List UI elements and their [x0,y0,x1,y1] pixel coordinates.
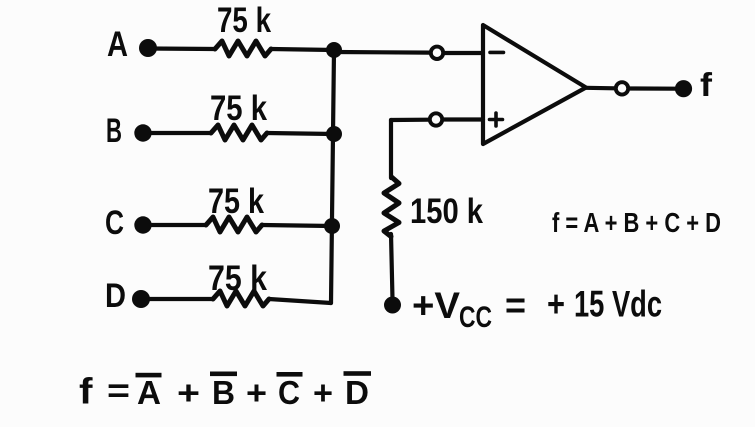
wire resistor C to bus [262,225,332,226]
wire 150k to Vcc dot [391,234,393,299]
value label 75 k (B) [210,89,267,128]
resistor R-D 75k [213,291,269,306]
svg-text:+: + [547,284,565,325]
equation f = A + B + C + D [552,207,721,238]
wire C dot to resistor [143,223,206,227]
value label 75 k (D) [208,259,267,298]
wire resistor B to bus [267,133,334,134]
wire plus branch corner down to 150k [389,120,393,178]
svg-text:B: B [212,374,235,411]
label +Vcc [412,285,492,334]
svg-text:D: D [105,277,126,315]
svg-text:75 k: 75 k [210,89,267,128]
node B label [106,112,122,150]
node D label [105,277,126,315]
node f label [700,66,713,103]
junction dot bus-A [326,42,342,58]
wire circle to op-amp plus [443,117,483,121]
label = [505,285,526,326]
svg-text:C: C [105,204,124,242]
resistor R-C 75k [206,217,262,232]
wire resistor D to bus corner [269,299,331,303]
op-amp plus sign [490,113,503,126]
output terminal dot [675,80,692,97]
node A label [107,25,128,64]
equation f = Abar + Bbar + Cbar + Dbar [79,371,371,412]
resistor R5 150k (vertical) [384,177,399,237]
input terminal dot A [139,39,157,57]
wire B dot to resistor [143,131,211,135]
wire output circle to dot [629,86,676,90]
node C label [105,204,124,242]
value label 75 k (C) [208,182,264,221]
summing bus vertical wire [331,50,334,303]
open circle output [616,82,628,94]
wire A dot to resistor [148,46,215,51]
wire bus to inverting input [334,50,430,55]
junction dot bus-C [324,218,340,234]
input terminal dot D [132,290,150,308]
input terminal dot B [134,124,151,141]
wire D dot to resistor [141,297,213,301]
svg-text:C: C [278,374,300,411]
svg-text:75 k: 75 k [208,182,264,221]
svg-text:+V: +V [412,285,460,326]
op-amp U1 triangle [483,25,586,144]
open circle inverting input [431,47,443,59]
open circle non-inverting input [430,113,442,125]
resistor R-A 75k [215,41,271,56]
Vcc terminal dot [384,297,401,314]
svg-text:CC: CC [459,301,492,334]
input terminal dot C [134,216,151,233]
svg-text:+: + [177,374,200,411]
svg-text:f: f [79,371,94,412]
svg-text:75 k: 75 k [217,1,271,40]
svg-text:=: = [107,372,130,409]
svg-text:f: f [700,66,713,103]
value label 75 k (A) [217,1,271,40]
label +15 Vdc [547,284,662,325]
svg-text:75 k: 75 k [208,259,267,298]
op-amp minus sign [490,51,504,55]
svg-text:A: A [107,25,128,64]
svg-text:+: + [246,374,267,411]
svg-text:+: + [313,374,333,411]
svg-text:f = A + B + C + D: f = A + B + C + D [552,207,721,238]
svg-text:15 Vdc: 15 Vdc [574,284,662,325]
wire resistor A to bus [271,49,334,50]
junction dot bus-B [326,126,342,142]
svg-text:A: A [137,374,161,411]
svg-text:=: = [505,285,526,326]
wire circle to op-amp minus [444,51,483,55]
svg-text:B: B [106,112,122,150]
svg-text:D: D [345,374,369,411]
value label 150 k [410,192,483,231]
svg-text:150 k: 150 k [410,192,483,231]
wire op-amp output to circle [586,86,615,91]
resistor R-B 75k [211,125,267,140]
wire from 150k corner to plus circle [391,118,429,123]
